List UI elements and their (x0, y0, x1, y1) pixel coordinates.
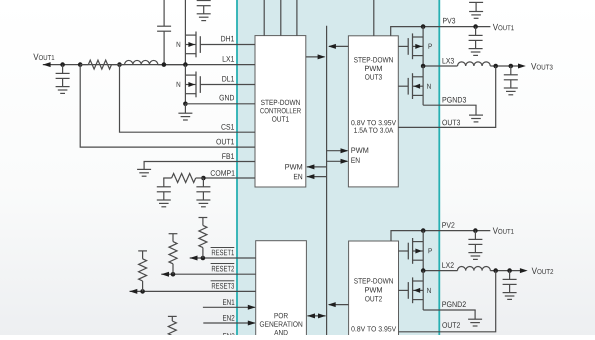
capacitor C3 with ground (VOUT1) (56, 65, 70, 94)
label VOUT1 left (33, 54, 54, 60)
wire Q5 gate to U2 (399, 250, 409, 252)
arrowhead VOUT2 (520, 268, 528, 273)
IC panel right border (438, 0, 440, 335)
pin label PGND2 (442, 301, 465, 307)
wire Q2 gate to DL1 pin (200, 84, 255, 86)
capacitor C10 with ground (VOUT2) (503, 271, 517, 300)
wire EN2 (203, 321, 255, 326)
junction dot Q1 source LX1 (183, 62, 188, 67)
pin label PGND3 (443, 97, 467, 103)
wire R2 left lead (164, 177, 172, 179)
label VOUT2 (532, 268, 554, 274)
pin label RESET3 with overline (211, 281, 235, 289)
U3 label line 2 (365, 66, 382, 71)
PWM-EN bus wire (326, 26, 328, 335)
junction dot PV3 decoupling (473, 24, 478, 29)
wire CS1 sense (120, 65, 256, 133)
junction dot CS1 sense (117, 62, 122, 67)
U3 pin label EN (351, 158, 359, 163)
wire bus to U1 EN pin (307, 174, 327, 179)
label VOUT1 top right (493, 24, 514, 30)
Q2 label N (177, 82, 181, 87)
pin label RESET1 with overline (211, 247, 235, 255)
wire LX2 node (423, 270, 457, 272)
ground PGND2 (468, 310, 482, 326)
arrowhead RESET1 (190, 256, 198, 261)
wire U3 output to bus (328, 44, 348, 49)
Q4 label N (427, 84, 431, 89)
capacitor C9 with ground (PV2) (468, 231, 482, 260)
U3 label line 3 (365, 74, 382, 79)
arrowhead VOUT1 left (43, 62, 51, 67)
block U1 STEP-DOWN CONTROLLER OUT1 (255, 36, 306, 187)
ground Q2 source (178, 104, 192, 120)
junction dot VOUT1 cap (60, 62, 65, 67)
pin label LX2 (442, 262, 453, 268)
wire R1 right lead (112, 64, 125, 66)
wire PGND2 (423, 309, 475, 311)
pin label LX1 (223, 56, 234, 62)
junction dot OUT1 sense (78, 62, 83, 67)
inductor L2 (458, 267, 491, 271)
junction dot RESET1 (201, 256, 206, 261)
wire COMP1 pin (203, 177, 255, 179)
transistor Q3 PMOS (OUT3 high side) (408, 33, 423, 59)
capacitor C8 with ground (VOUT3) (504, 66, 518, 95)
wire input rail to series capacitor (163, 0, 165, 26)
resistor pull-up EN3 (clipped) (168, 316, 177, 340)
transistor Q4 NMOS rail (422, 66, 424, 105)
block U2 STEP-DOWN PWM OUT2 (349, 241, 399, 337)
capacitor C1 (series on LX1 branch) (157, 26, 171, 64)
block U3 STEP-DOWN PWM OUT3 (348, 36, 398, 187)
capacitor C6 with ground (top edge, upper plate off-screen) (469, 2, 483, 18)
pin label DL1 (222, 76, 234, 82)
U2 label line 1 (354, 278, 393, 283)
transistor Q1 NMOS (high side) (185, 32, 200, 58)
wire Q4 gate to U3 (398, 85, 408, 87)
U4 label line 2 (260, 321, 302, 326)
transistor Q5 PMOS (OUT2 high side) (408, 238, 423, 264)
wire L2 to VOUT2 (490, 270, 520, 272)
wire bus to U1 PWM pin (307, 164, 327, 169)
arrowhead RESET3 (130, 289, 138, 294)
U3 pin label PWM (351, 148, 368, 153)
IC panel left border (236, 0, 238, 335)
wire FB1 to ground (144, 161, 255, 164)
capacitor C4 with ground (COMP1) (157, 178, 171, 207)
wire LX3 node (423, 65, 457, 67)
junction dot PV3 rail (421, 24, 426, 29)
Q3 label P (429, 44, 432, 49)
U1 pin label EN (294, 174, 302, 179)
resistor pull-up RESET3 (138, 251, 147, 292)
pin label OUT3 (442, 120, 460, 126)
transistor Q4 NMOS (OUT3 low side) (408, 73, 423, 99)
pin label GND (219, 95, 234, 101)
wire L1 to LX1 (158, 64, 186, 66)
U2 rating line 1 (351, 326, 396, 331)
junction dot OUT3 sense (493, 64, 498, 69)
wire OUT3 sense (398, 66, 495, 127)
wire RESET1 (190, 257, 256, 259)
U3 rating line 2 (354, 128, 393, 133)
wire U1 top pin feed 2 (280, 0, 282, 36)
inductor L3 (458, 62, 491, 66)
wire bus to U3 EN pin (327, 159, 349, 164)
pin label COMP1 (211, 170, 235, 176)
junction dot OUT2 sense (493, 268, 498, 273)
wire RESET2 (161, 273, 256, 275)
U1 pin label PWM (285, 164, 302, 169)
wire OUT1 sense (80, 65, 255, 148)
junction dot VOUT2 cap (507, 268, 512, 273)
Q1 label N (177, 42, 181, 47)
transistor Q6 NMOS rail (422, 271, 424, 310)
pin label EN3 (clipped) (223, 333, 234, 339)
wire Q6 gate to U2 (399, 289, 409, 291)
U1 label line 2 (260, 108, 301, 113)
pin label OUT2 (442, 322, 460, 328)
wire GND pin (185, 103, 255, 105)
pin label LX3 (443, 58, 454, 64)
pin label EN2 (223, 315, 234, 321)
resistor R2 (COMP1 network) (172, 174, 196, 183)
capacitor C2 with ground (input decoupling) (197, 1, 211, 21)
pin label EN1 (223, 299, 234, 305)
pin label OUT1 (216, 139, 234, 145)
transistor Q6 NMOS (OUT2 low side) (408, 277, 423, 303)
wire bus to U3 PWM pin (327, 148, 349, 153)
wire L3 to VOUT3 (490, 65, 518, 67)
junction dot Q5 source LX2 (421, 268, 426, 273)
U3 rating line 1 (351, 120, 396, 125)
junction dot PV2 rail (421, 228, 426, 233)
wire U3 top pin feed (373, 0, 375, 36)
wire PGND3 (423, 104, 476, 106)
wire U1 top pin feed 3 (296, 0, 298, 36)
pin label RESET2 with overline (211, 264, 235, 272)
pin label PV2 (442, 222, 454, 228)
wire U1 top pin feed 1 (263, 0, 265, 36)
wire PV2 from U2 top (391, 231, 490, 241)
resistor pull-up RESET1 (199, 218, 208, 259)
transistor Q1 NMOS DH1 rail (184, 0, 186, 65)
label VOUT1 bottom right (493, 227, 514, 233)
ground PGND3 (469, 105, 483, 122)
label VOUT3 (531, 63, 553, 69)
wire POR to bus bidirectional (307, 313, 326, 318)
junction dot COMP1 (201, 176, 206, 181)
wire U1 output to bus (306, 54, 326, 59)
U1 label line 3 (272, 116, 289, 121)
transistor Q3 PMOS rail (422, 27, 424, 66)
transistor Q2 NMOS DL1 rail (184, 65, 186, 104)
U2 label line 3 (365, 296, 382, 301)
wire PV3 from U3 top (391, 27, 491, 36)
wire R1 left lead (80, 64, 88, 66)
IC teal panel (237, 0, 439, 335)
wire OUT2 sense (399, 271, 496, 332)
U4 label line 3 (274, 330, 287, 335)
wire LX1 node (43, 64, 255, 66)
Q6 label N (427, 288, 431, 293)
block U4 POR GENERATION AND (256, 241, 307, 337)
U4 label line 1 (274, 313, 287, 318)
wire RESET3 (130, 290, 256, 292)
wire Q3 gate to U3 (398, 45, 408, 47)
wire R2 right lead (196, 177, 204, 179)
pin label PV3 (443, 18, 455, 24)
junction dot Q2 source GND (183, 102, 188, 107)
transistor Q2 NMOS (low side) (185, 72, 200, 98)
arrowhead VOUT3 (518, 64, 526, 69)
U2 label line 2 (365, 287, 382, 292)
wire U2 output to bus (328, 302, 349, 307)
capacitor C5 with ground (COMP1) (196, 178, 210, 207)
resistor pull-up RESET2 (169, 234, 178, 275)
U1 label line 1 (261, 100, 300, 105)
pin label FB1 (222, 153, 234, 159)
transistor Q5 PMOS rail (422, 231, 424, 271)
junction dot Q3 source LX3 (421, 64, 426, 69)
pin label CS1 (221, 124, 234, 130)
wire Q1 gate to DH1 pin (200, 44, 255, 46)
wire EN1 (203, 305, 256, 310)
junction dot VOUT3 cap (509, 64, 514, 69)
junction dot PV2 decoupling (473, 228, 478, 233)
arrowhead RESET2 (161, 272, 169, 277)
junction dot RESET3 (140, 289, 145, 294)
ground FB1 (137, 162, 151, 177)
Q5 label P (429, 248, 432, 253)
capacitor C7 with ground (PV3) (469, 27, 483, 56)
U3 label line 1 (354, 57, 393, 62)
inductor L1 (125, 60, 158, 64)
junction dot series cap to LX1 (162, 62, 167, 67)
resistor R1 (current sense) (88, 60, 111, 69)
junction dot RESET2 (171, 272, 176, 277)
pin label DH1 (221, 36, 234, 42)
